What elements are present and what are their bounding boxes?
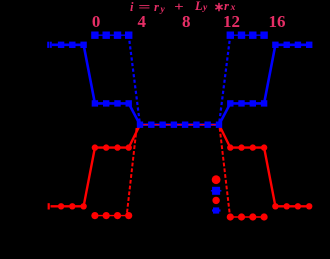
blue dotted connector D1 (from big-square i=3 down to i=4 junction) [129,35,140,125]
blue big square markers (top rows) [91,32,268,39]
legend entry: red small circle [212,197,219,204]
blue small square markers [58,42,313,128]
x tick label 0 [84,12,108,32]
red small circle markers [58,144,313,209]
red dotted connector D3 (from i=4 junction down to big-circle row left) [127,128,137,215]
red line overlap on shared bottom segment [140,124,219,126]
legend entry: blue small square with line sample [212,207,221,213]
red dotted connector D4 (from i=11 junction down to big-circle row right) [220,128,230,216]
title i = r_y + L_y * r_x [0,0,330,20]
x tick label 12 [220,12,244,32]
blue solid step line (small-square series) [52,45,309,125]
x tick label 8 [174,12,198,32]
red line start bar at i=-4 [48,203,50,209]
blue thin line big-square row i=0..3 [95,34,129,36]
red thin line big-circle row i=0..3 [95,215,129,217]
legend entry: red big circle [212,175,221,184]
red big circle markers (bottom rows) [91,212,267,221]
blue dotted connector D2 (from big-square i=12 down to i=11 junction) [219,35,230,125]
x tick label 4 [130,12,154,32]
x tick label 16 [265,12,289,32]
legend entry: blue big square with line sample [211,187,222,195]
red solid step line (small-circle series) [51,125,310,207]
blue thin line big-square row i=12..15 [230,34,264,36]
blue line start bars at i=-4 [47,42,52,48]
red thin line big-circle row i=12..15 [230,216,264,218]
